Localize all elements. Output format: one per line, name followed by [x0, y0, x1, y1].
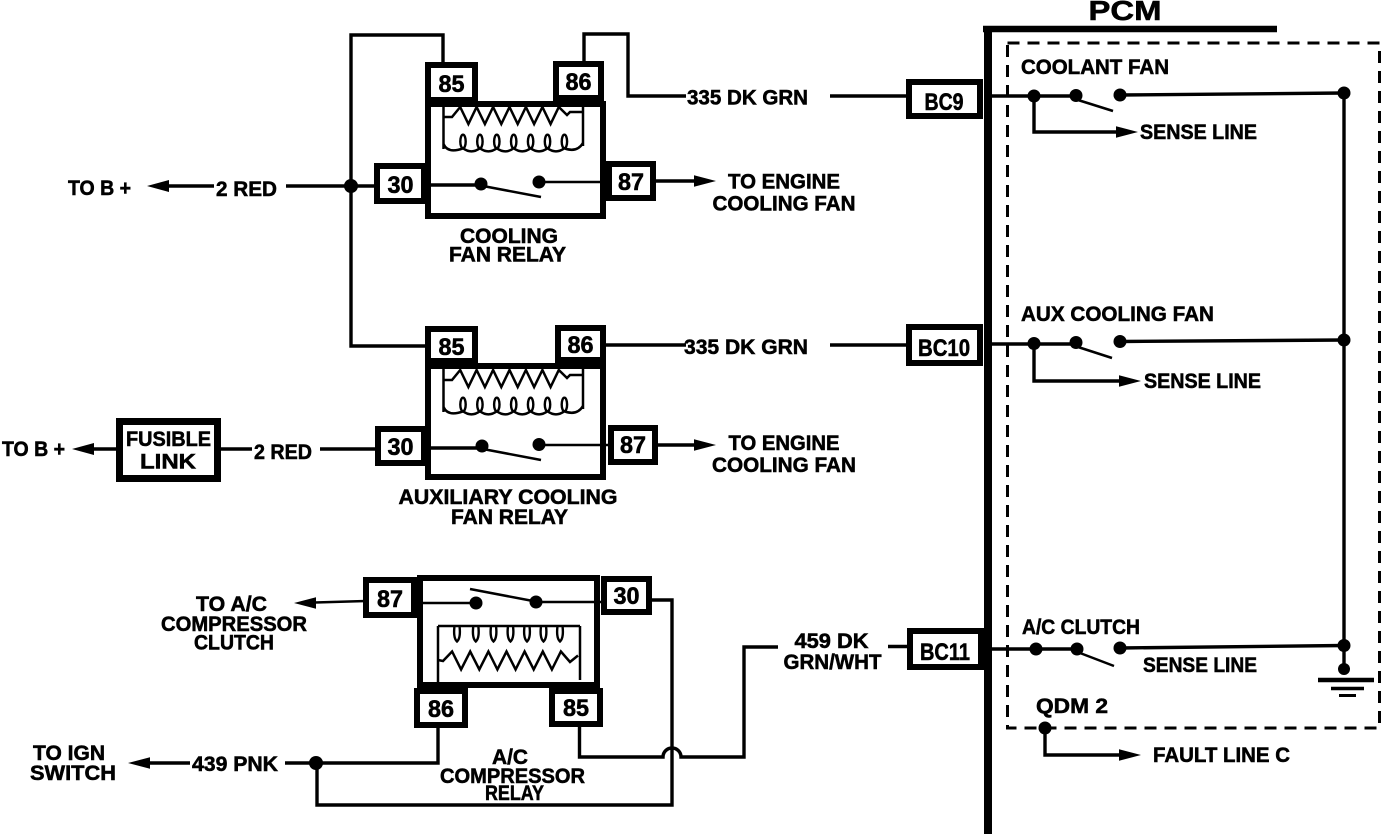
svg-text:85: 85 — [563, 695, 589, 722]
switch node dots a/c clutch — [1030, 642, 1127, 656]
svg-text:FUSIBLE: FUSIBLE — [126, 428, 211, 451]
wire arrow to 2 RED — [168, 184, 214, 187]
svg-text:86: 86 — [428, 696, 454, 723]
node: bus junction 2 — [1338, 334, 1351, 347]
arrow to engine cooling fan (2) — [694, 439, 716, 451]
PCM top bar — [983, 26, 1277, 33]
switch wire right (K1) — [539, 181, 609, 184]
svg-text:TO ENGINE: TO ENGINE — [729, 432, 840, 455]
relay coil right lead — [582, 366, 585, 409]
wire 335 DK GRN to BC9 — [830, 94, 909, 97]
wire fusible link to 2 RED — [221, 447, 252, 450]
connector BC11 — [910, 631, 981, 667]
wire switch to bus 2 — [1120, 340, 1344, 342]
connector BC10 — [909, 327, 980, 363]
switch contacts (K3) — [470, 596, 543, 610]
svg-text:BC9: BC9 — [925, 89, 964, 116]
switch node dots coolant fan — [1028, 89, 1127, 103]
svg-text:SENSE LINE: SENSE LINE — [1140, 121, 1257, 144]
terminal 86 (K1) — [556, 64, 601, 98]
arrow to a/c compressor clutch — [294, 597, 316, 609]
svg-text:A/C CLUTCH: A/C CLUTCH — [1022, 616, 1140, 639]
svg-text:85: 85 — [439, 334, 465, 361]
svg-text:2 RED: 2 RED — [216, 178, 277, 201]
relay coil right lead — [582, 103, 585, 146]
svg-text:BC10: BC10 — [918, 335, 970, 362]
relay K2 auxiliary cooling fan relay body — [428, 366, 603, 477]
svg-text:2 RED: 2 RED — [254, 441, 312, 464]
svg-text:FAN RELAY: FAN RELAY — [451, 506, 568, 529]
switch blade coolant fan — [1078, 100, 1113, 111]
wire 2 RED to 30 (K1) — [286, 184, 377, 187]
switch wire left (K1) — [427, 183, 481, 186]
wire 459 label to BC11 — [888, 645, 910, 648]
wire BC10 to switch — [984, 342, 1076, 345]
arrow sense line 2 — [1119, 375, 1141, 387]
wire BC11 to switch — [984, 647, 1077, 650]
switch blade (K1) — [483, 186, 541, 197]
ground — [1318, 645, 1374, 696]
wire switch to bus — [1120, 93, 1344, 95]
wire 2 RED to 30 (K2) — [320, 447, 378, 450]
wire 335 DK GRN to BC10 — [830, 343, 909, 346]
label TO IGN SWITCH — [30, 742, 116, 785]
label 459 DK GRN/WHT — [784, 630, 882, 674]
node: bus junction 3 — [1338, 639, 1351, 652]
svg-text:FAULT LINE C: FAULT LINE C — [1153, 744, 1290, 767]
wire fault line c — [1045, 728, 1120, 755]
arrow to engine cooling fan (1) — [694, 175, 716, 187]
relay coil inductor loops — [444, 135, 584, 152]
svg-text:86: 86 — [566, 69, 592, 96]
svg-text:30: 30 — [388, 434, 414, 461]
svg-text:TO ENGINE: TO ENGINE — [728, 171, 840, 194]
svg-text:85: 85 — [439, 71, 465, 98]
svg-text:SWITCH: SWITCH — [30, 762, 116, 785]
svg-text:COOLANT FAN: COOLANT FAN — [1021, 56, 1169, 79]
arrow TO IGN SWITCH — [128, 757, 150, 769]
relay K1 cooling fan relay body — [428, 104, 603, 216]
terminal 30 (K3) — [604, 579, 649, 612]
terminal 86 (K2) — [558, 328, 603, 360]
terminal 85 (K2) — [428, 329, 475, 361]
svg-text:335 DK GRN: 335 DK GRN — [684, 336, 808, 359]
svg-text:LINK: LINK — [140, 451, 196, 474]
relay coil left lead — [442, 104, 445, 149]
relay coil resistor zigzag — [444, 107, 584, 124]
svg-text:87: 87 — [618, 169, 644, 196]
wire 439 PNK to junction to 86(K3) — [285, 725, 438, 763]
PCM left wall — [984, 26, 992, 834]
svg-text:FAN RELAY: FAN RELAY — [449, 244, 566, 267]
node junction 439 PNK — [309, 756, 323, 770]
svg-text:COOLING FAN: COOLING FAN — [712, 454, 856, 477]
switch blade aux fan — [1078, 347, 1112, 358]
svg-text:335 DK GRN: 335 DK GRN — [687, 87, 808, 110]
label A/C COMPRESSOR RELAY — [440, 746, 585, 805]
arrow TO B+ (1) — [147, 180, 169, 192]
svg-text:RELAY: RELAY — [485, 782, 544, 805]
svg-text:30: 30 — [388, 172, 414, 199]
wire switch to bus 3 — [1120, 646, 1344, 649]
PCM dashed boundary box — [1008, 43, 1380, 728]
wire 30(K3) right and down around bottom to 439 junction — [317, 600, 672, 805]
wire BC9 to switch — [984, 94, 1076, 97]
node junction 2 RED / coil feed — [344, 179, 358, 193]
wire 87(K2) arrow to engine cooling fan — [655, 443, 696, 446]
label TO ENGINE COOLING FAN (2) — [712, 432, 856, 477]
svg-text:PCM: PCM — [1089, 0, 1162, 26]
arrow fault line c — [1119, 749, 1141, 761]
relay coil right lead (K3) — [579, 626, 582, 680]
label TO ENGINE COOLING FAN (1) — [713, 171, 856, 216]
terminal 87 (K2) — [611, 428, 655, 462]
wire 87(K1) arrow to engine cooling fan — [653, 179, 696, 182]
svg-text:COOLING FAN: COOLING FAN — [713, 193, 856, 216]
svg-text:SENSE LINE: SENSE LINE — [1144, 370, 1261, 393]
svg-text:439 PNK: 439 PNK — [192, 753, 278, 776]
wire 85(K1) up-over-down to aux 85 feed — [351, 35, 443, 346]
wire 87(K3) to arrow — [315, 601, 366, 603]
wire 85(K3) to 459 DK GRN/WHT with hop over vertical — [580, 647, 779, 757]
wire sense line 2 — [1034, 344, 1120, 381]
wire 86(K1) up-over-down to 335 DK GRN — [584, 34, 686, 96]
switch wire right (K3) — [536, 601, 604, 604]
wire sense line 1 — [1034, 96, 1117, 132]
svg-text:TO B +: TO B + — [2, 438, 65, 461]
svg-text:86: 86 — [568, 332, 594, 359]
wire 86(K2) to 335 DK GRN — [605, 343, 686, 346]
svg-text:SENSE LINE: SENSE LINE — [1143, 654, 1257, 677]
connector BC9 — [909, 82, 980, 116]
switch node dots aux fan — [1028, 335, 1127, 350]
relay coil left lead — [442, 367, 445, 412]
terminal 87 (K1) — [609, 164, 653, 198]
svg-text:459 DK: 459 DK — [795, 630, 869, 653]
node QDM dot — [1039, 722, 1052, 735]
arrow sense line 1 — [1116, 126, 1138, 138]
relay coil left lead (K3) — [437, 626, 440, 684]
terminal 30 (K2) — [378, 429, 424, 463]
switch contacts (K2) — [476, 438, 546, 453]
arrow TO B+ (2) — [72, 443, 94, 455]
switch blade (K2) — [483, 449, 541, 460]
terminal 85 (K3) — [552, 691, 600, 724]
svg-text:CLUTCH: CLUTCH — [194, 632, 274, 655]
wire arrow to 439 PNK — [149, 761, 190, 764]
svg-text:30: 30 — [614, 583, 640, 610]
svg-text:AUX COOLING FAN: AUX COOLING FAN — [1021, 303, 1214, 326]
svg-text:TO B +: TO B + — [68, 177, 131, 200]
label AUXILIARY COOLING FAN RELAY — [399, 486, 618, 529]
label COOLING FAN RELAY — [449, 225, 566, 267]
svg-text:QDM 2: QDM 2 — [1036, 695, 1108, 718]
switch wire right (K2) — [539, 444, 611, 447]
terminal 30 (K1) — [377, 166, 424, 201]
switch wire left (K2) — [424, 446, 481, 449]
wire arrow to fusible link — [93, 447, 119, 450]
wire: internal sense bus vertical — [1342, 93, 1345, 646]
relay coil top line (K3) — [438, 625, 580, 628]
relay K3 a/c compressor relay body — [420, 578, 597, 685]
relay coil hanging loops (K3) — [454, 627, 563, 642]
fusible link box — [120, 422, 218, 479]
svg-text:87: 87 — [377, 586, 403, 613]
switch contacts (K1) — [475, 176, 546, 191]
svg-text:GRN/WHT: GRN/WHT — [784, 651, 882, 674]
node: bus junction 1 — [1338, 87, 1351, 100]
label TO A/C COMPRESSOR CLUTCH — [161, 593, 307, 655]
terminal 87 (K3) — [366, 580, 414, 615]
svg-text:BC11: BC11 — [920, 639, 970, 666]
relay coil resistor zigzag — [444, 370, 584, 387]
relay coil inductor loops — [444, 398, 584, 415]
svg-text:87: 87 — [620, 432, 646, 459]
relay coil zigzag (K3) — [438, 652, 578, 670]
terminal 86 (K3) — [417, 691, 465, 725]
switch blade (K3) — [470, 589, 533, 601]
switch blade a/c clutch — [1080, 653, 1114, 666]
switch wire left (K3) — [414, 602, 476, 605]
terminal 85 (K1) — [428, 65, 475, 100]
